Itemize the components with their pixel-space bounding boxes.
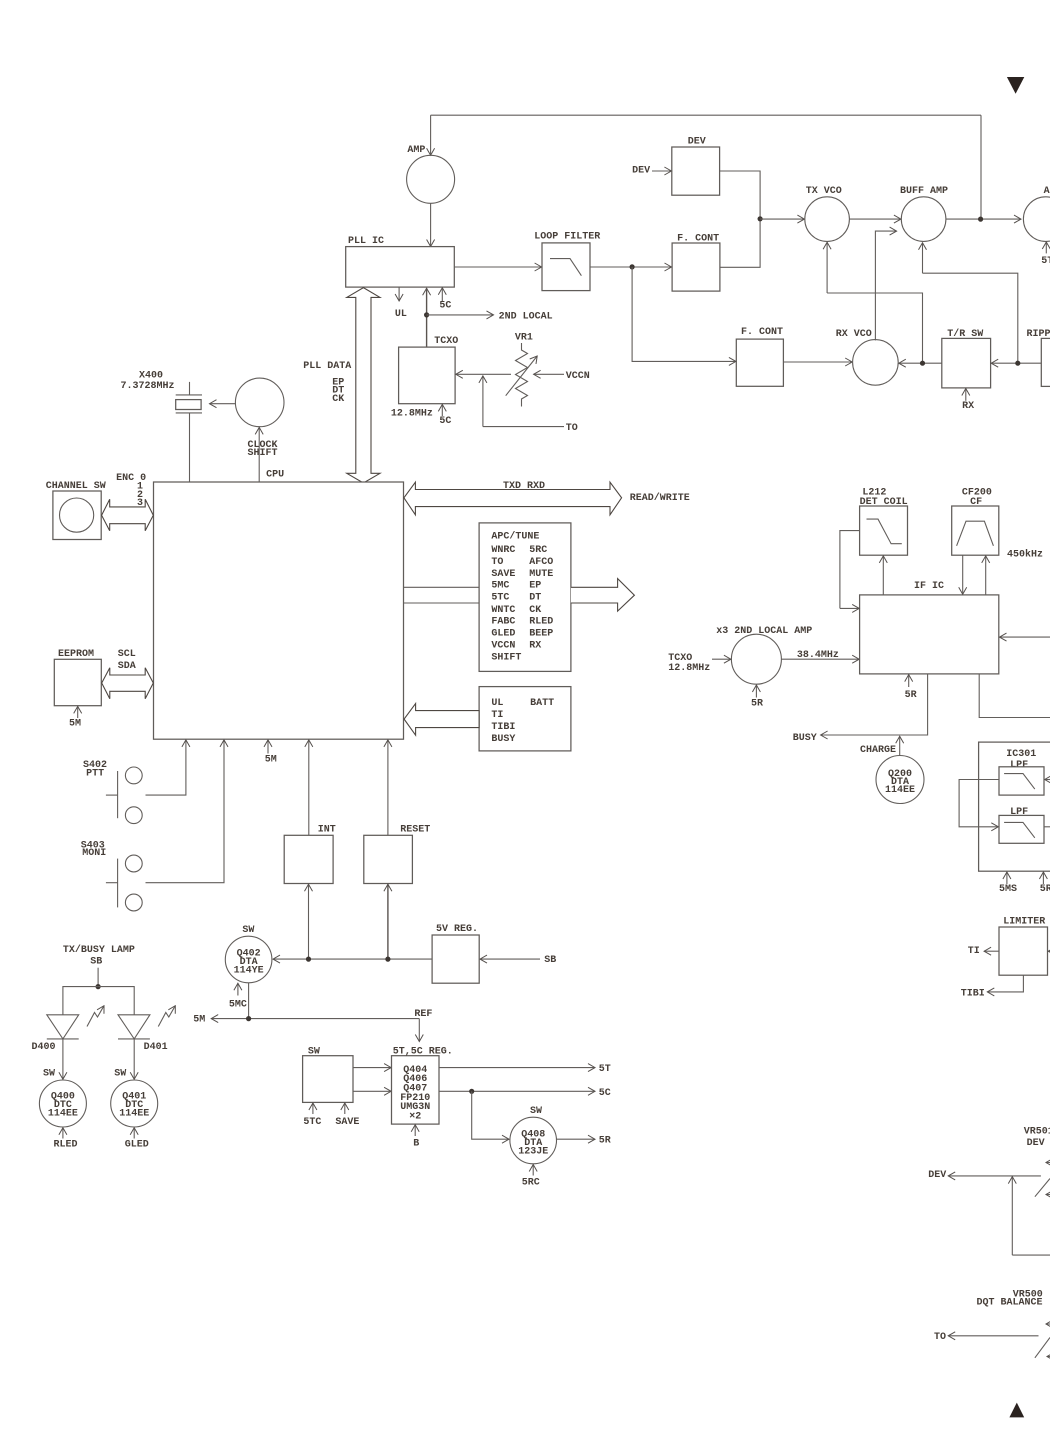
wire 5R into local amp (751, 685, 763, 710)
wire from below up to DEV line (1012, 1177, 1050, 1256)
diode D400 (LED) (32, 1015, 79, 1053)
crystal X400 7.3728MHz (121, 371, 203, 482)
node RESET supply junction (385, 957, 390, 962)
svg-text:EEPROM: EEPROM (58, 649, 94, 660)
wire DEV output (928, 1170, 1041, 1181)
amp x3 2ND LOCAL AMP (716, 626, 812, 684)
svg-text:SHIFT: SHIFT (491, 652, 521, 663)
amp AMP (right edge) (1023, 186, 1050, 241)
transistor Q402 DTA114YE (SW) (225, 925, 272, 983)
wire 5M rail with REF takeoff (193, 1014, 419, 1025)
T/R SW block (942, 328, 991, 388)
wire 5C down to Q408 (472, 1091, 509, 1139)
svg-text:RIPPLE: RIPPLE (1027, 329, 1050, 340)
svg-text:PTT: PTT (86, 768, 104, 779)
bus arrow channel sw to CPU (102, 499, 154, 530)
svg-text:TIBI: TIBI (961, 988, 985, 999)
svg-text:BATT: BATT (530, 698, 554, 709)
svg-text:5RC: 5RC (522, 1177, 540, 1188)
svg-text:TO: TO (491, 557, 503, 568)
svg-text:2ND LOCAL: 2ND LOCAL (499, 311, 553, 322)
wire 5T output (439, 1064, 611, 1075)
amp BUFF AMP (900, 186, 948, 241)
wire AMP to PLL IC (430, 203, 432, 246)
svg-text:VCCN: VCCN (566, 371, 590, 382)
svg-text:5T: 5T (599, 1064, 611, 1075)
INT block (284, 824, 336, 883)
svg-text:TIBI: TIBI (491, 722, 515, 733)
wire CPU to clock shift (258, 427, 260, 482)
svg-text:PLL IC: PLL IC (348, 236, 384, 247)
IF IC block (860, 581, 999, 674)
wire DEV input (652, 170, 671, 172)
wire D401 to Q401 (133, 1039, 135, 1079)
svg-text:114EE: 114EE (119, 1109, 149, 1120)
svg-text:SW: SW (43, 1069, 55, 1080)
diode D401 (LED) (118, 1015, 168, 1053)
svg-text:5MC: 5MC (229, 999, 247, 1010)
wire 5TC into SW (303, 1103, 321, 1128)
svg-text:5M: 5M (69, 719, 81, 730)
svg-text:5TC: 5TC (303, 1117, 321, 1128)
wire VCCN input (534, 371, 590, 382)
svg-text:AMP: AMP (407, 145, 425, 156)
wire 2ND LOCAL output (427, 311, 553, 322)
wire SB down to lamp rail (97, 968, 99, 987)
svg-text:5RC: 5RC (529, 545, 547, 556)
potentiometer VR1 (506, 333, 538, 407)
bus arrow PLL DATA (PLL IC to CPU) (347, 288, 380, 483)
svg-text:INT: INT (318, 824, 336, 835)
wire RESET to CPU (387, 740, 389, 835)
filter LPF upper (IC301) (999, 767, 1044, 795)
svg-text:PLL DATA: PLL DATA (303, 361, 351, 372)
signal list box APC/TUNE (479, 523, 571, 672)
wire 5M into EEPROM (69, 706, 81, 729)
wire 5R output (557, 1136, 611, 1147)
marker triangle bottom right (1009, 1403, 1024, 1418)
wire SB into 5V REG (480, 955, 556, 966)
wire into LPF upper right (1045, 779, 1050, 781)
wire 5R into IF IC bottom (905, 675, 917, 701)
svg-text:SCL: SCL (118, 649, 136, 660)
clock shift circle (235, 378, 284, 459)
transistor Q400 DTC114EE (SW) (39, 1069, 86, 1128)
emission arrow D400 (87, 1006, 104, 1027)
svg-text:LOOP FILTER: LOOP FILTER (534, 232, 600, 243)
wire lamp rail (63, 987, 134, 1015)
DEV block (672, 136, 720, 195)
channel switch block (46, 481, 106, 539)
svg-text:LIMITER: LIMITER (1003, 917, 1045, 928)
svg-text:7.3728MHz: 7.3728MHz (121, 381, 175, 392)
oscillator RX VCO (836, 329, 898, 385)
svg-text:F. CONT: F. CONT (677, 233, 719, 244)
wire SAVE into SW (335, 1103, 359, 1128)
svg-text:MUTE: MUTE (529, 569, 553, 580)
wire DEV output to junction (720, 171, 761, 219)
emission arrow D401 (158, 1006, 175, 1027)
svg-text:BUFF AMP: BUFF AMP (900, 186, 948, 197)
ENC 0 1 2 3 labels (116, 473, 146, 509)
wire Q402 down to 5M rail (248, 983, 250, 1019)
svg-text:X400: X400 (139, 371, 163, 382)
wire loop filter junction down to rx F.CONT (632, 267, 736, 362)
loop filter (534, 232, 600, 291)
wire feedback top from buff amp output up and left to AMP (431, 115, 981, 219)
wire 5C into PLL IC (439, 288, 451, 312)
regulator 5T,5C REG (Q404 Q406 Q407 FP210 UMG3N x2) (392, 1046, 453, 1124)
wire T/R SW to RX VCO (899, 362, 942, 364)
switch S402 PTT (83, 760, 142, 824)
wire 5MC into Q402 (229, 983, 247, 1010)
oscillator TX VCO (805, 186, 850, 241)
wire 5V REG to Q402 (273, 958, 432, 960)
wire PLL IC to loop filter (454, 266, 541, 268)
wire BUFF AMP control feed (923, 243, 1018, 364)
wire F.CONT tx output to junction (720, 219, 760, 267)
wire IF IC audio out to IC301 (979, 674, 1050, 718)
svg-text:IF IC: IF IC (914, 581, 944, 592)
svg-text:5MC: 5MC (491, 581, 509, 592)
wire IF IC to DET COIL (882, 556, 884, 595)
svg-text:TX VCO: TX VCO (806, 186, 842, 197)
svg-text:CK: CK (529, 605, 541, 616)
wire BUFF AMP output to right AMP (946, 218, 1021, 220)
svg-text:CHARGE: CHARGE (860, 745, 896, 756)
wire CHARGE from Q200 (860, 736, 900, 756)
wire 5M into CPU bottom (265, 740, 277, 766)
F.CONT block (tx) (672, 233, 720, 291)
svg-text:AMP: AMP (1044, 186, 1050, 197)
wire 5RC into Q408 (522, 1165, 540, 1189)
svg-text:AFCO: AFCO (529, 557, 553, 568)
wire 5R into IC301 (1040, 872, 1050, 895)
svg-text:SB: SB (90, 957, 102, 968)
svg-text:12.8MHz: 12.8MHz (391, 408, 433, 419)
wire rx F.CONT to RX VCO (783, 361, 852, 363)
svg-text:RLED: RLED (54, 1140, 78, 1151)
svg-text:SHIFT: SHIFT (248, 448, 278, 459)
wire TCXO to PLL IC (426, 288, 428, 347)
svg-text:D400: D400 (32, 1042, 56, 1053)
RIPPLE FILTER block (clipped at edge) (1027, 329, 1050, 386)
filter L212 DET COIL (860, 488, 908, 556)
wire 38.4MHz to IF IC (781, 650, 859, 661)
svg-text:VR501: VR501 (1024, 1127, 1050, 1138)
F.CONT block (rx) (736, 327, 783, 386)
bus arrow APC/TUNE outputs (571, 579, 635, 612)
wire junction to TX VCO (760, 218, 804, 220)
svg-text:BEEP: BEEP (529, 629, 553, 640)
wire UL output from PLL IC (395, 287, 407, 320)
svg-text:BUSY: BUSY (491, 734, 515, 745)
wire CPU to APC box (upper) (404, 586, 479, 588)
wire supply to INT (308, 884, 310, 959)
IC301 block outline (979, 742, 1050, 871)
node 2nd local junction (424, 312, 429, 317)
CPU block (154, 470, 404, 740)
TCXO block (391, 336, 458, 419)
marker triangle top right (1007, 77, 1024, 94)
node 5M rail junction (246, 1016, 251, 1021)
svg-text:DEV: DEV (632, 166, 650, 177)
svg-text:114EE: 114EE (885, 785, 915, 796)
wire supply to RESET (387, 884, 389, 959)
wire TIBI output from limiter (961, 975, 1024, 999)
svg-text:EP: EP (529, 581, 541, 592)
wire 5C output (439, 1088, 611, 1099)
bus arrow TXD RXD (CPU read/write) (404, 482, 622, 515)
svg-text:DEV: DEV (688, 136, 706, 147)
svg-text:CK: CK (332, 394, 344, 405)
svg-text:SW: SW (530, 1106, 542, 1117)
svg-text:VCCN: VCCN (491, 640, 515, 651)
wire IF IC to CF200 (up) (985, 556, 987, 595)
svg-text:5R: 5R (1040, 884, 1050, 895)
svg-text:DT: DT (529, 593, 541, 604)
svg-text:F. CONT: F. CONT (741, 327, 783, 338)
svg-text:SW: SW (308, 1046, 320, 1057)
svg-text:DEV: DEV (928, 1170, 946, 1181)
wire SW to regulator (lower) (353, 1090, 391, 1092)
svg-text:5R: 5R (905, 690, 917, 701)
svg-text:UL: UL (395, 309, 407, 320)
wire CF200 to IF IC (down) (962, 555, 964, 594)
node loop filter junction (630, 264, 635, 269)
svg-text:TI: TI (491, 710, 503, 721)
svg-text:SAVE: SAVE (335, 1117, 359, 1128)
svg-text:RESET: RESET (400, 824, 430, 835)
svg-text:GLED: GLED (491, 629, 515, 640)
PLL DATA label (303, 361, 351, 405)
wire INT to CPU (308, 740, 310, 835)
svg-text:RX: RX (962, 401, 974, 412)
node ripple output junction (1015, 361, 1020, 366)
wire B into regulator (413, 1125, 419, 1150)
node lamp rail junction (96, 984, 101, 989)
wire MONI to CPU (146, 740, 225, 883)
svg-text:BUSY: BUSY (793, 733, 817, 744)
wire PTT to CPU (146, 740, 186, 795)
wire VCCN net into TCXO (456, 373, 511, 375)
wire DET COIL feedback loop to IF IC (840, 531, 860, 609)
svg-text:114EE: 114EE (48, 1109, 78, 1120)
svg-text:REF: REF (414, 1009, 432, 1020)
svg-text:TO: TO (934, 1332, 946, 1343)
svg-text:FABC: FABC (491, 617, 515, 628)
svg-text:IC301: IC301 (1006, 749, 1036, 760)
wire clock shift to crystal (210, 403, 236, 405)
amp AMP (divider amp) (407, 145, 455, 203)
wire TO output (934, 1332, 1039, 1343)
svg-text:TI: TI (968, 946, 980, 957)
bus arrow UL/TI/TIBI/BUSY into CPU (404, 704, 479, 736)
potentiometer VR500 DQT BALANCE (977, 1289, 1050, 1357)
wire into limiter right (1048, 950, 1050, 952)
node DEV/F.CONT junction (758, 216, 763, 221)
transistor Q408 DTA123JE (SW) (510, 1106, 557, 1164)
svg-text:SB: SB (544, 955, 556, 966)
wire D400 to Q400 (62, 1039, 64, 1079)
node 5C junction (469, 1089, 474, 1094)
svg-text:DQT BALANCE: DQT BALANCE (977, 1297, 1043, 1308)
switch S403 MONI (81, 841, 142, 911)
wire TI output from limiter (968, 946, 999, 957)
node buff amp output junction (978, 217, 983, 222)
wire input into IF IC right (1000, 636, 1050, 638)
svg-text:RLED: RLED (529, 617, 553, 628)
svg-text:12.8MHz: 12.8MHz (668, 663, 710, 674)
svg-text:SW: SW (114, 1069, 126, 1080)
wire TO net up to VCCN line (483, 376, 578, 434)
SCL SDA labels (118, 649, 136, 672)
RESET block (364, 824, 431, 883)
svg-text:CPU: CPU (266, 470, 284, 481)
svg-text:5M: 5M (265, 755, 277, 766)
wire LPF lower output right (1044, 826, 1050, 828)
svg-text:CHANNEL SW: CHANNEL SW (46, 481, 106, 492)
svg-text:5R: 5R (599, 1136, 611, 1147)
wire 5MS into IC301 (999, 872, 1017, 895)
transistor Q200 DTA114EE (876, 756, 924, 804)
svg-text:WNRC: WNRC (491, 545, 515, 556)
svg-text:TXD RXD: TXD RXD (503, 481, 545, 492)
wire LPF upper out to LPF lower (959, 780, 999, 827)
svg-text:VR1: VR1 (515, 333, 533, 344)
svg-text:5M: 5M (193, 1014, 205, 1025)
svg-text:×2: ×2 (409, 1111, 421, 1122)
wire CPU to APC box (lower) (404, 602, 479, 604)
svg-text:114YE: 114YE (234, 966, 264, 977)
wire TX VCO to BUFF AMP (849, 218, 901, 220)
svg-text:5C: 5C (439, 300, 451, 311)
svg-text:TCXO: TCXO (434, 336, 458, 347)
wire TX VCO control feed (827, 242, 922, 363)
wire RX VCO output up into BUFF AMP (875, 231, 896, 340)
svg-text:UL: UL (491, 698, 503, 709)
svg-text:38.4MHz: 38.4MHz (797, 650, 839, 661)
svg-text:SAVE: SAVE (491, 569, 515, 580)
svg-text:D401: D401 (144, 1042, 168, 1053)
wire TCXO 12.8MHz input (668, 653, 731, 674)
svg-text:5V REG.: 5V REG. (436, 924, 478, 935)
svg-text:123JE: 123JE (518, 1147, 548, 1158)
svg-text:RX VCO: RX VCO (836, 329, 872, 340)
wire GLED into Q401 (125, 1128, 149, 1151)
svg-text:5C: 5C (599, 1088, 611, 1099)
filter CF200 CF (952, 488, 999, 556)
transistor Q401 DTC114EE (SW) (111, 1069, 158, 1128)
node INT supply junction (306, 957, 311, 962)
wire SW to regulator (upper) (353, 1067, 391, 1069)
wire RLED into Q400 (54, 1128, 78, 1151)
wire loop filter output to F.CONT with junction (590, 266, 672, 268)
svg-text:RX: RX (529, 640, 541, 651)
svg-text:5C: 5C (439, 416, 451, 427)
wire REF down to 5T,5C REG (414, 1009, 432, 1041)
potentiometer VR501 DEV (1024, 1127, 1050, 1197)
wire 5C into TCXO (439, 404, 451, 427)
PLL IC U1 (346, 236, 455, 287)
svg-text:5T,5C REG.: 5T,5C REG. (393, 1046, 453, 1057)
svg-text:450kHz: 450kHz (1007, 549, 1043, 561)
wire ripple filter to T/R SW (991, 362, 1041, 364)
svg-text:READ/WRITE: READ/WRITE (630, 492, 690, 504)
svg-text:GLED: GLED (125, 1140, 149, 1151)
svg-text:5T: 5T (1041, 256, 1050, 267)
wire 5T into right AMP (1041, 242, 1050, 267)
svg-text:B: B (413, 1138, 419, 1149)
svg-text:MONI: MONI (82, 848, 106, 859)
svg-text:WNTC: WNTC (491, 605, 515, 616)
TX/BUSY LAMP labels (63, 944, 135, 968)
bus arrow EEPROM to CPU (102, 668, 154, 699)
svg-text:5R: 5R (751, 699, 763, 710)
svg-text:TX/BUSY LAMP: TX/BUSY LAMP (63, 944, 135, 956)
svg-text:APC/TUNE: APC/TUNE (491, 531, 539, 543)
filter LPF lower (IC301) (999, 807, 1044, 844)
svg-text:SDA: SDA (118, 661, 136, 672)
SW block (5TC/SAVE) (303, 1046, 353, 1102)
svg-text:T/R SW: T/R SW (947, 328, 983, 340)
LIMITER block (999, 917, 1048, 976)
signal list box UL/TI/TIBI/BUSY (479, 687, 571, 751)
svg-text:5MS: 5MS (999, 884, 1017, 895)
wire RX control into T/R SW (962, 389, 974, 413)
svg-text:DEV: DEV (1027, 1138, 1045, 1149)
EEPROM block (54, 649, 101, 706)
5V REG block (432, 924, 479, 983)
svg-text:TO: TO (566, 423, 578, 434)
svg-text:SW: SW (242, 925, 254, 936)
svg-text:5TC: 5TC (491, 593, 509, 604)
node RX VCO control junction (920, 361, 925, 366)
wire BUSY output from IF IC (793, 674, 928, 744)
